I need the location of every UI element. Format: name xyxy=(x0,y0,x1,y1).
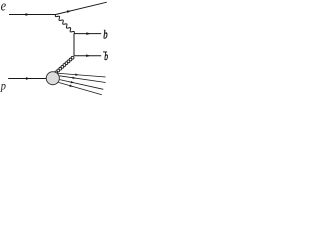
arrow on scattered electron xyxy=(67,10,71,13)
svg-text:p: p xyxy=(0,80,6,93)
incoming electron line xyxy=(9,14,56,16)
arrow remnant 3 xyxy=(71,81,75,83)
proton remnant blob xyxy=(46,72,59,85)
overbar of bbar xyxy=(103,51,107,53)
remnant line 4 xyxy=(58,82,101,94)
remnant line 1 xyxy=(58,73,106,77)
arrow remnant 4 xyxy=(69,85,73,87)
arrow on b quark xyxy=(86,32,90,35)
photon wavy line xyxy=(55,15,74,34)
scattered electron line xyxy=(56,2,107,14)
bbar quark line xyxy=(74,55,101,57)
arrow remnant 2 xyxy=(72,77,76,79)
b quark line xyxy=(74,33,101,35)
remnant line 2 xyxy=(59,76,105,83)
arrow remnant 1 xyxy=(75,73,79,75)
quark vertical propagator xyxy=(73,34,75,56)
proton line xyxy=(8,78,47,80)
svg-text:e: e xyxy=(1,0,6,14)
svg-text:b: b xyxy=(103,28,108,42)
arrow on bbar quark xyxy=(86,54,90,57)
arrow on incoming electron xyxy=(26,13,30,16)
remnant line 3 xyxy=(60,80,104,90)
arrow on proton xyxy=(26,77,30,80)
gluon coil xyxy=(55,56,74,73)
